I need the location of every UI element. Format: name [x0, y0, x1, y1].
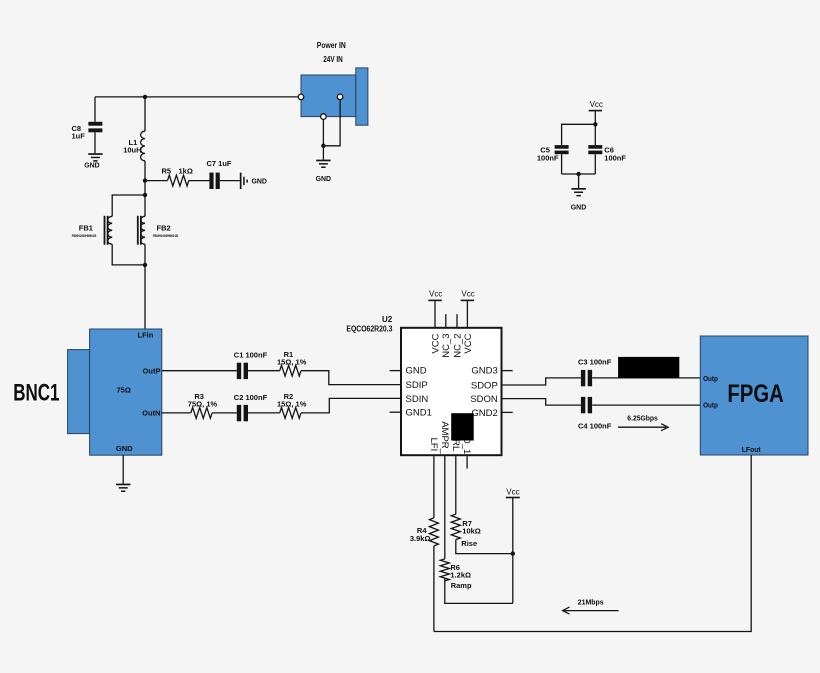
svg-text:15Ω, 1%: 15Ω, 1% [277, 357, 307, 366]
BNC connector BNC1 [13, 329, 162, 455]
svg-text:GND: GND [116, 444, 133, 453]
resistor R7 10k [451, 514, 481, 548]
wire BNC gnd stem [122, 455, 124, 483]
svg-text:GND: GND [252, 176, 268, 185]
svg-text:C2 100nF: C2 100nF [234, 393, 268, 402]
svg-text:GND: GND [571, 202, 587, 211]
wire FB loop bottom [112, 244, 145, 265]
svg-text:LFout: LFout [742, 445, 761, 454]
power Vcc top right [589, 100, 603, 145]
label 21Mbps arrow [563, 597, 619, 614]
svg-text:OutN: OutN [142, 409, 160, 418]
capacitor C2 [234, 393, 268, 421]
svg-text:FBMH1608HM601B: FBMH1608HM601B [153, 234, 179, 238]
pin label SDOP [471, 380, 498, 391]
svg-text:Outp: Outp [703, 374, 718, 383]
svg-text:10uH: 10uH [123, 146, 141, 155]
pin label GND [406, 366, 427, 377]
svg-text:GND1: GND1 [406, 408, 432, 419]
power Vcc IC pin4 [461, 290, 475, 328]
svg-text:LFI: LFI [428, 438, 439, 452]
svg-text:FBMH1608HM601B: FBMH1608HM601B [72, 234, 97, 238]
wire GND3 stub right [502, 370, 513, 372]
connector J1 Power IN [301, 41, 368, 125]
svg-text:15Ω, 1%: 15Ω, 1% [277, 400, 307, 409]
svg-text:GND: GND [316, 174, 332, 183]
capacitor C8 [72, 97, 103, 153]
wire R4 bottom down [433, 546, 435, 632]
wire NC stub bottom [466, 455, 468, 468]
wire GND2 stub right [502, 411, 513, 413]
wire NC_3 stub [445, 314, 447, 328]
svg-text:FPGA: FPGA [727, 380, 783, 408]
capacitor C1 [234, 350, 268, 379]
svg-text:SDIN: SDIN [406, 394, 429, 405]
svg-text:R5: R5 [162, 167, 172, 176]
wire R6 bottom to Vcc rail [445, 578, 513, 603]
redaction box above SDOP wire [618, 357, 679, 378]
pin 3 circle Power IN [321, 114, 327, 120]
svg-text:GND2: GND2 [471, 408, 497, 419]
wire R7 bottom to Vcc rail [456, 540, 513, 554]
capacitor C5 [537, 145, 569, 174]
node junction R7 Vcc rail [511, 551, 515, 555]
pin label GND2 [471, 408, 497, 419]
svg-text:LFin: LFin [138, 331, 154, 340]
svg-text:AMPR_: AMPR_ [439, 421, 450, 454]
svg-text:U2: U2 [382, 315, 393, 324]
resistor R6 1.2k [440, 559, 472, 590]
node junction decoupling gnd [576, 172, 580, 176]
svg-text:Vcc: Vcc [461, 290, 474, 299]
wire to gnd [578, 174, 580, 188]
wire R3 to C2 [212, 412, 237, 414]
wire C4 to FPGA [592, 404, 700, 406]
label 6.25Gbps arrow [618, 414, 668, 431]
svg-text:C7 1uF: C7 1uF [207, 159, 232, 168]
node junction FB bottom [143, 263, 147, 267]
wire GND1 stub left [390, 411, 401, 413]
wire FB loop top [112, 195, 145, 216]
svg-text:1uF: 1uF [72, 131, 86, 140]
wire AMPR stub down [444, 455, 446, 559]
svg-text:EQCO62R20.3: EQCO62R20.3 [346, 325, 392, 334]
capacitor C6 [588, 145, 626, 174]
svg-text:Ramp: Ramp [451, 581, 472, 590]
svg-text:VCC: VCC [463, 333, 474, 353]
wire top rail [95, 96, 298, 98]
svg-text:VCC: VCC [430, 333, 441, 353]
wire LFI stub down [433, 455, 435, 518]
node junction R5 tap [143, 178, 147, 182]
pin label SDIN [406, 394, 429, 405]
wire C5 C6 bottom join [562, 173, 596, 175]
pin label LFI bottom [428, 438, 439, 452]
ground under C8 [84, 153, 102, 169]
ferrite bead FB1 [72, 216, 112, 245]
svg-text:GND: GND [84, 160, 100, 169]
wire OutN to R3 [162, 412, 191, 414]
pin label NC_2 [452, 334, 463, 358]
inductor L1 [123, 97, 145, 216]
node junction FB top [143, 193, 147, 197]
svg-text:100nF: 100nF [604, 153, 626, 162]
svg-text:100nF: 100nF [537, 153, 559, 162]
pin label NC_3 [441, 334, 452, 358]
wire down to BNC LFin [144, 244, 146, 329]
svg-text:10kΩ: 10kΩ [462, 527, 481, 536]
node junction power gnd [321, 144, 325, 148]
op-amp U2 EQCO62R20.3 body [346, 315, 501, 455]
wire C2 to R2 [248, 412, 280, 414]
pin label SDIP [406, 380, 428, 391]
svg-text:C3 100nF: C3 100nF [578, 357, 612, 366]
wire OutP to C1 [162, 370, 237, 372]
ground decoupling [571, 188, 587, 211]
svg-text:21Mbps: 21Mbps [578, 597, 604, 606]
FPGA block [700, 336, 808, 455]
svg-text:Vcc: Vcc [590, 100, 603, 109]
wire SDOP to C3 with step [502, 378, 581, 385]
wire power pin3 down [322, 119, 324, 159]
wire GND stub left [390, 370, 401, 372]
pin label GND1 [406, 408, 432, 419]
ground BNC [116, 484, 130, 492]
wire C1 to R1 [248, 370, 280, 372]
svg-text:GND3: GND3 [471, 366, 497, 377]
node junction Vcc rail [593, 122, 597, 126]
pin label CTRL bottom hidden [450, 427, 461, 452]
svg-text:Vcc: Vcc [429, 290, 442, 299]
power Vcc IC pin1 [428, 290, 442, 328]
ground sideways at C7 [240, 173, 268, 189]
svg-text:FB2: FB2 [157, 224, 171, 233]
power Vcc bias [506, 488, 520, 604]
wire LFout down and across [434, 455, 751, 632]
svg-text:C1 100nF: C1 100nF [234, 350, 268, 359]
resistor R5 1k [162, 167, 193, 186]
pin 1 circle Power IN [298, 94, 304, 100]
wire R7 stub down [455, 455, 457, 514]
svg-text:1.2kΩ: 1.2kΩ [450, 570, 471, 579]
wire SDON to C4 with step [502, 399, 581, 406]
wire NC_2 stub [456, 314, 458, 328]
pin label GND3 [471, 366, 497, 377]
svg-text:75Ω, 1%: 75Ω, 1% [188, 400, 218, 409]
svg-text:Outp: Outp [703, 401, 718, 410]
svg-text:OutP: OutP [143, 366, 161, 375]
svg-text:SDON: SDON [470, 394, 498, 405]
svg-text:Vcc: Vcc [506, 488, 519, 497]
capacitor C4 [578, 397, 612, 431]
wire R2 to SDIN with step [301, 398, 401, 413]
svg-text:NC_3: NC_3 [441, 334, 452, 358]
svg-text:1kΩ: 1kΩ [179, 167, 193, 176]
svg-text:6.25Gbps: 6.25Gbps [627, 414, 658, 423]
node junction top rail [143, 95, 147, 99]
wire power pin2 down [323, 100, 340, 146]
ground Power IN [316, 160, 332, 183]
svg-text:Rise: Rise [461, 539, 477, 548]
redaction box over bottom pins [451, 413, 474, 440]
wire [189, 180, 210, 182]
svg-text:C4 100nF: C4 100nF [578, 421, 612, 430]
svg-text:NC_2: NC_2 [452, 334, 463, 358]
svg-text:Power IN: Power IN [317, 41, 346, 50]
wire R5 branch [145, 180, 168, 182]
svg-text:SDIP: SDIP [406, 380, 428, 391]
pin label SDON [470, 394, 498, 405]
ferrite bead FB2 [137, 216, 179, 245]
svg-text:75Ω: 75Ω [117, 385, 131, 394]
pin label VCC right-top [463, 333, 474, 353]
wire C5 branch [562, 124, 596, 145]
wire [220, 180, 240, 182]
resistor R4 3.9k [410, 518, 439, 546]
pin 2 circle Power IN [337, 94, 343, 100]
capacitor C7 1uF [207, 159, 232, 189]
resistor R3 75 ohm [188, 392, 218, 418]
svg-text:BNC1: BNC1 [13, 380, 59, 407]
svg-text:24V IN: 24V IN [323, 55, 343, 64]
svg-text:3.9kΩ: 3.9kΩ [410, 534, 431, 543]
wire R1 to SDIP with step [301, 371, 401, 385]
svg-text:FB1: FB1 [79, 224, 93, 233]
resistor R2 15 ohm [277, 392, 307, 418]
resistor R1 15 ohm [277, 350, 307, 376]
pin label AMPR_ bottom [439, 421, 450, 454]
capacitor C3 [578, 357, 612, 386]
svg-text:SDOP: SDOP [471, 380, 498, 391]
wire C3 to FPGA [592, 377, 700, 379]
pin label SD_1 bottom hidden [461, 431, 472, 455]
svg-text:GND: GND [406, 366, 427, 377]
pin label VCC left-top [430, 333, 441, 353]
